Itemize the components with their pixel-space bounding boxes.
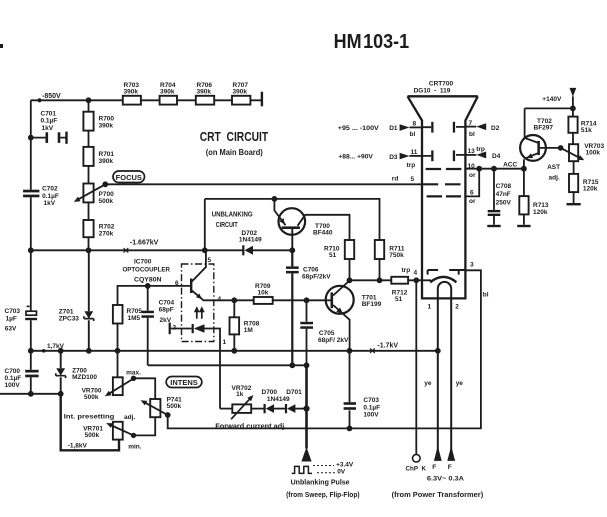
svg-text:Forward current adj.: Forward current adj. [215, 424, 286, 431]
resistor R701 [83, 147, 93, 166]
junction dot C700 bottom [28, 391, 34, 397]
diode D700 [264, 404, 266, 413]
svg-text:C708: C708 [496, 183, 512, 190]
opto phototransistor base bar [190, 279, 192, 294]
svg-text:500k: 500k [167, 403, 182, 410]
wire R712 to CRT cathode pin 4 [408, 279, 431, 281]
svg-text:51k: 51k [581, 127, 592, 134]
svg-text:1N4149: 1N4149 [267, 396, 290, 403]
wire VR700 wiper to P741 top [134, 378, 156, 399]
svg-text:trp: trp [407, 162, 416, 169]
T702 emitter wire [524, 153, 538, 168]
svg-text:500k: 500k [85, 432, 100, 439]
T702 base wire to VR703 wiper [540, 147, 561, 149]
svg-text:1kV: 1kV [44, 200, 56, 207]
svg-text:51: 51 [395, 296, 403, 303]
wire unblanking top rail [205, 199, 380, 240]
capacitor C704 [147, 286, 149, 365]
T702 collector wire [525, 108, 538, 142]
svg-text:bl: bl [469, 131, 475, 138]
T700 base bar [282, 226, 300, 229]
T700 collector lead [298, 215, 350, 240]
svg-text:CRT700: CRT700 [429, 81, 454, 88]
input arrow D2 [476, 123, 486, 130]
svg-text:MZD100: MZD100 [72, 374, 97, 381]
wire VR703 to R715 [573, 161, 575, 174]
wire R715 to ground [573, 192, 575, 203]
svg-text:OPTOCOUPLER: OPTOCOUPLER [123, 267, 171, 274]
cathode arc [430, 277, 456, 282]
svg-text:750k: 750k [389, 252, 404, 259]
wire pin6 riser [465, 169, 479, 197]
wire opto pin5 collector [192, 250, 206, 281]
pulse waveform symbol [292, 466, 312, 473]
ground bar C708 [487, 225, 500, 227]
svg-text:C703: C703 [5, 308, 21, 315]
svg-text:1kV: 1kV [42, 125, 54, 132]
label INTENS [166, 377, 202, 388]
resistor R715 [569, 174, 578, 192]
svg-text:HM 103-1: HM 103-1 [334, 31, 410, 53]
svg-text:UNBLANKING: UNBLANKING [212, 212, 253, 219]
svg-text:-1.667kV: -1.667kV [130, 240, 159, 247]
terminal bar end of divider chain [261, 92, 263, 107]
deflection plate pair pins 11-13 [422, 155, 465, 156]
T701 emitter lead [333, 305, 350, 351]
svg-text:4: 4 [218, 296, 222, 303]
svg-text:D1: D1 [389, 125, 398, 132]
svg-text:390k: 390k [197, 89, 212, 96]
junction dot C708 top [491, 166, 497, 172]
CRT funnel and envelope [408, 96, 478, 298]
junction dot Z700 bottom [58, 391, 64, 397]
input arrow D3 [400, 153, 410, 160]
svg-text:390k: 390k [160, 89, 175, 96]
svg-text:390k: 390k [124, 89, 139, 96]
wire +140V rail [525, 96, 573, 116]
blanking electrode pin3 [428, 270, 466, 275]
svg-text:250V: 250V [496, 200, 512, 207]
svg-text:trp: trp [476, 146, 485, 153]
svg-text:C700: C700 [5, 368, 21, 375]
opto emitter wire pin4 [192, 291, 254, 301]
svg-text:1µF: 1µF [6, 316, 17, 323]
wire -1.667kV bus [31, 249, 293, 251]
resistor R704 [160, 96, 177, 105]
svg-text:1,7kV: 1,7kV [47, 343, 65, 350]
zener Z701 [88, 250, 90, 350]
T701 collector lead [333, 280, 350, 295]
svg-text:F: F [432, 464, 436, 471]
svg-text:CQY80N: CQY80N [134, 277, 162, 284]
junction dot rail T700 emitter [272, 196, 278, 202]
wire unblanking left vertical [204, 199, 206, 250]
junction dot C705 top [304, 297, 310, 303]
resistor R713 [523, 169, 525, 225]
heater terminal F right [447, 446, 455, 461]
capacitor C706 plates [286, 266, 299, 269]
wire collector node to R712 [350, 279, 392, 281]
junction dot R711 bottom [377, 277, 383, 283]
svg-text:DG10 - 119: DG10 - 119 [414, 88, 451, 95]
junction dot diode node [303, 406, 309, 412]
potentiometer VR702 [220, 408, 232, 410]
resistor R703 [123, 96, 141, 105]
svg-text:6: 6 [175, 280, 179, 287]
svg-text:47nF: 47nF [496, 191, 511, 198]
LED pin2 stub [170, 328, 191, 330]
svg-text:0.1µF: 0.1µF [5, 375, 22, 382]
svg-text:68pF: 68pF [159, 306, 174, 313]
junction dot R708 bottom [231, 348, 237, 354]
junction dot -850V left [37, 98, 41, 102]
capacitor C703b 0.1uF 100V [349, 351, 351, 429]
resistor R709 [254, 297, 273, 304]
svg-text:bl: bl [483, 292, 489, 299]
ground bar R715 [567, 203, 581, 205]
svg-text:bl: bl [410, 131, 416, 138]
wire K test point [415, 280, 417, 454]
svg-text:AST: AST [547, 164, 560, 171]
wire D701 to pulse node [295, 408, 306, 410]
T702 emitter arrow (NPN) [527, 153, 534, 158]
LED of optocoupler [192, 324, 194, 333]
svg-text:100V: 100V [363, 412, 379, 419]
svg-text:1M5: 1M5 [128, 315, 141, 322]
wire pin10 line to ACC [465, 168, 524, 170]
resistor R706 [196, 96, 214, 105]
svg-text:ye: ye [424, 380, 432, 387]
wire R711 bottom to collector line [379, 259, 381, 280]
junction dot bus2 C706 [289, 362, 295, 368]
svg-text:6: 6 [470, 190, 474, 197]
svg-text:11: 11 [411, 149, 418, 156]
junction dot bus left end [28, 247, 34, 253]
resistor R705 [113, 305, 123, 324]
heater terminal F left [434, 446, 442, 461]
svg-text:68pF/2kV: 68pF/2kV [302, 274, 331, 281]
wire ground line to left edge [0, 393, 61, 395]
resistor R710 [345, 240, 354, 259]
grid dashes pin 6 row [427, 195, 461, 197]
wire -850V rail [31, 99, 262, 101]
svg-text:500k: 500k [84, 394, 99, 401]
junction dot Z700 top [58, 348, 64, 354]
svg-text:0.1µF: 0.1µF [363, 404, 380, 411]
input triangle unblanking pulse [301, 447, 311, 462]
svg-text:F: F [448, 464, 452, 471]
transistor T702 circle [520, 135, 546, 161]
junction dot P741 wiper [165, 412, 171, 418]
svg-text:BF440: BF440 [313, 229, 333, 236]
svg-text:C705: C705 [319, 330, 335, 337]
junction dot C701 tap [28, 135, 34, 141]
svg-text:6.3V~ 0.3A: 6.3V~ 0.3A [427, 476, 464, 483]
svg-text:+88... +90V: +88... +90V [338, 154, 373, 161]
input arrow D4 [476, 152, 486, 159]
svg-text:(from Power Transformer): (from Power Transformer) [392, 492, 484, 499]
junction dot T700 base bottom [289, 247, 295, 253]
svg-text:C701: C701 [41, 111, 57, 118]
svg-text:2: 2 [173, 325, 177, 332]
svg-text:ZPC33: ZPC33 [59, 316, 80, 323]
junction dot R702 bottom [86, 247, 92, 253]
terminal circle ChP K [413, 454, 421, 462]
svg-text:0V: 0V [337, 468, 346, 475]
capacitor C706 vertical wire [291, 250, 293, 365]
svg-text:-1.7kV: -1.7kV [377, 343, 398, 350]
junction dot ACC node [521, 166, 527, 172]
svg-text:ACC: ACC [503, 162, 517, 169]
junction dot K test point [413, 277, 419, 283]
svg-text:min.: min. [128, 443, 142, 450]
svg-text:+95 ... -100V: +95 ... -100V [338, 125, 380, 132]
potentiometer VR701 [113, 422, 123, 440]
svg-text:FOCUS: FOCUS [116, 173, 142, 182]
svg-text:IC700: IC700 [134, 259, 152, 266]
svg-text:10k: 10k [258, 290, 269, 297]
input arrow D1 [400, 124, 410, 131]
thick unblanking pulse vertical [305, 365, 308, 448]
svg-text:100k: 100k [586, 150, 601, 157]
junction dot P700 wiper [102, 181, 108, 187]
svg-text:or: or [469, 198, 476, 205]
svg-text:2: 2 [455, 303, 459, 310]
T700 base lead down [291, 229, 293, 250]
svg-text:120k: 120k [583, 186, 598, 193]
junction dot D702 left [202, 247, 208, 253]
wire R709 to T701 base [273, 299, 332, 301]
svg-text:0.1µF: 0.1µF [41, 118, 58, 125]
potentiometer VR700 [113, 377, 123, 395]
svg-text:CIRCUIT: CIRCUIT [216, 222, 239, 229]
T700 emitter arrow (PNP) [279, 218, 285, 224]
T702 base bar [537, 141, 540, 155]
svg-text:100V: 100V [5, 382, 21, 389]
grid dashes pin 5 row [423, 183, 461, 185]
optocoupler dashed box [182, 264, 214, 342]
wire R714 to VR703 [572, 133, 574, 144]
deflection plate pair pins 8-7 [422, 126, 465, 128]
measure cross on bus [124, 248, 129, 253]
resistor R700 [83, 112, 93, 131]
svg-text:BF199: BF199 [362, 301, 382, 308]
svg-text:Unblanking Pulse: Unblanking Pulse [291, 480, 350, 487]
heater filament [438, 282, 451, 454]
wire forward-current bus3 [168, 270, 481, 428]
wire bus2 C704 bottom to unblanking node [148, 364, 307, 366]
junction dot bus2 right end [304, 362, 310, 368]
capacitor C702 [23, 190, 39, 193]
wire left vertical -850V to C703 [30, 100, 32, 394]
junction dot Z701 bottom [86, 348, 92, 354]
T700 emitter lead [274, 199, 285, 225]
svg-text:C702: C702 [42, 186, 58, 193]
resistor R707 [232, 96, 250, 105]
svg-text:2kV: 2kV [160, 317, 172, 324]
supply arrow +140V [570, 88, 577, 97]
wire VR701 wiper to P741 bottom [134, 417, 156, 435]
junction dot R705-VR700 [115, 348, 121, 354]
svg-text:3: 3 [470, 262, 474, 269]
svg-text:rd: rd [392, 176, 399, 183]
opto emitter arrow [196, 293, 202, 299]
resistor R712 [391, 277, 408, 284]
svg-text:5: 5 [411, 176, 415, 183]
svg-text:4: 4 [414, 270, 418, 277]
svg-text:1k: 1k [236, 391, 244, 398]
svg-text:1M: 1M [244, 327, 253, 334]
svg-text:or: or [469, 172, 476, 179]
transistor T700 circle [279, 208, 306, 235]
svg-text:-1,8kV: -1,8kV [68, 443, 88, 450]
junction dot VR700 wiper [131, 376, 136, 381]
light arrows [197, 311, 202, 319]
capacitor C705 [306, 300, 308, 365]
svg-text:INTENS: INTENS [170, 378, 198, 387]
svg-text:51: 51 [329, 252, 337, 259]
svg-text:1: 1 [428, 303, 432, 310]
junction dot bus1 small [42, 349, 46, 353]
resistor R702 [83, 220, 93, 237]
potentiometer VR703 [569, 144, 578, 161]
scan speck top-left [0, 44, 3, 48]
svg-text:390k: 390k [99, 158, 114, 165]
svg-text:8: 8 [413, 121, 417, 128]
svg-text:adj.: adj. [549, 174, 560, 181]
wire D700 to D701 [274, 408, 286, 410]
grid dashes pin 10 row [426, 168, 462, 170]
junction dot C704 tap [145, 283, 151, 289]
wire VR702 to D700 [251, 408, 264, 410]
svg-text:68pF/ 2kV: 68pF/ 2kV [318, 337, 349, 344]
svg-text:+140V: +140V [542, 96, 562, 103]
svg-text:5: 5 [208, 257, 212, 264]
junction dot VR701 wiper [131, 433, 136, 438]
junction dot +140V [570, 106, 576, 112]
capacitor C708 [493, 169, 495, 225]
junction dot collector node [347, 277, 353, 283]
junction dot T701 emitter bus1 [347, 348, 353, 354]
svg-text:D4: D4 [492, 153, 501, 160]
wire divider vertical x88.5 [88, 100, 90, 250]
svg-text:390k: 390k [99, 122, 114, 129]
junction dot bus1 heater end [435, 348, 441, 354]
svg-text:D3: D3 [389, 154, 398, 161]
svg-text:Int. presetting: Int. presetting [64, 414, 115, 421]
junction dot pin6 riser [476, 166, 482, 172]
capacitor C703 (1uF 63V) [26, 311, 37, 315]
junction dot bus1 left [28, 348, 34, 354]
svg-text:120k: 120k [533, 209, 548, 216]
resistor R708 [233, 300, 235, 351]
svg-text:0.1µF: 0.1µF [42, 193, 59, 200]
svg-text:max.: max. [126, 369, 141, 376]
svg-text:1N4149: 1N4149 [239, 237, 262, 244]
junction dot C703b bottom [347, 426, 353, 432]
diode D702 [242, 245, 244, 255]
T701 emitter arrow (NPN) [336, 308, 343, 314]
transistor T701 circle [326, 286, 354, 314]
capacitor C701 [31, 137, 66, 139]
junction dot VR703 wiper [558, 145, 564, 151]
svg-text:1: 1 [223, 339, 227, 346]
thick wire Z700 bottom loop [61, 394, 119, 451]
junction dot R708 top [231, 297, 237, 303]
wire R705 bottom to -1.7kV bus [117, 324, 119, 351]
label FOCUS [113, 171, 145, 183]
svg-text:390k: 390k [233, 89, 248, 96]
potentiometer P741 [150, 399, 160, 417]
wire focus line to CRT grid [105, 183, 422, 185]
wire VR700 top to bus1 [117, 351, 119, 378]
svg-text:trp: trp [402, 267, 411, 274]
wire R710 bottom to collector node [349, 259, 351, 280]
svg-text:adj.: adj. [124, 414, 135, 421]
zener Z700 [60, 351, 62, 394]
svg-text:500k: 500k [99, 198, 114, 205]
svg-text:63V: 63V [5, 326, 17, 333]
diode D701 [285, 404, 287, 413]
svg-text:BF297: BF297 [534, 125, 554, 132]
svg-text:CRT CIRCUIT: CRT CIRCUIT [200, 130, 269, 144]
measure cross bus1 [370, 349, 375, 353]
svg-text:-850V: -850V [42, 93, 61, 100]
svg-text:(on Main Board): (on Main Board) [206, 147, 263, 157]
svg-text:C703: C703 [363, 397, 379, 404]
opto pin6 base wire [118, 286, 191, 305]
potentiometer P700 [83, 184, 93, 203]
svg-text:D2: D2 [491, 125, 500, 132]
svg-text:(from Sweep, Flip-Flop): (from Sweep, Flip-Flop) [286, 492, 360, 499]
svg-text:ChP K: ChP K [406, 466, 427, 473]
wire -1.7kV bus [31, 350, 438, 352]
capacitor C700 [25, 370, 38, 373]
svg-text:13: 13 [468, 148, 476, 155]
resistor R714 [568, 117, 577, 133]
svg-text:270k: 270k [99, 230, 114, 237]
resistor R711 [375, 240, 384, 259]
svg-text:ye: ye [456, 380, 464, 387]
ground bar R713 [517, 225, 530, 227]
svg-text:Z701: Z701 [59, 309, 74, 316]
T701 base bar [331, 292, 334, 308]
LED anode wire to pin1 [205, 329, 221, 409]
junction dot R700 top [86, 97, 92, 103]
